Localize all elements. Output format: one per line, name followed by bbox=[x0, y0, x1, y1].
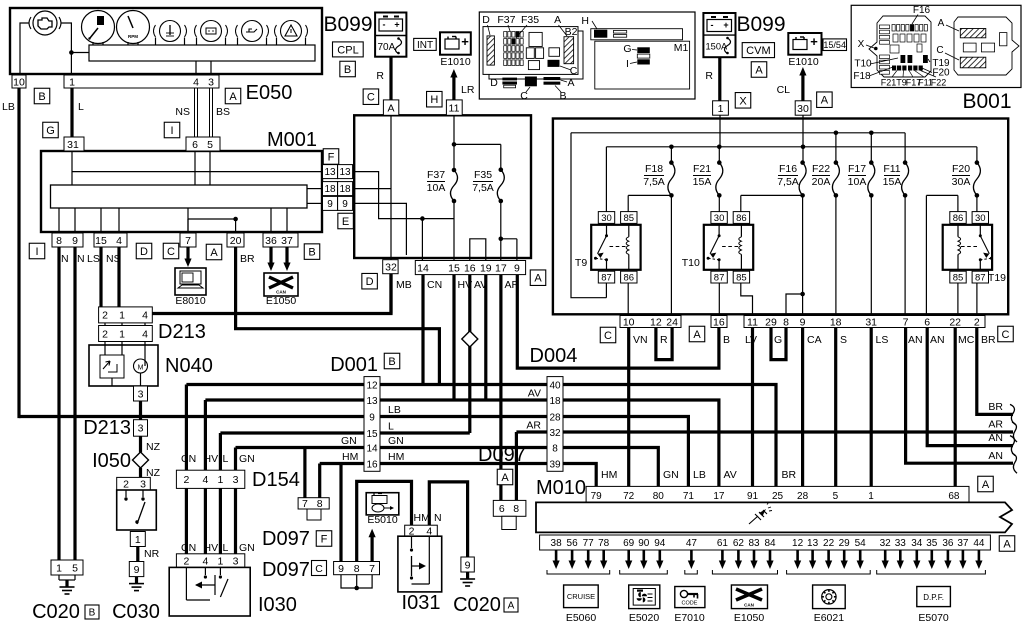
svg-text:85: 85 bbox=[736, 273, 747, 284]
svg-text:M010: M010 bbox=[536, 477, 586, 499]
M001 inner module bbox=[51, 185, 308, 208]
svg-text:10A: 10A bbox=[427, 182, 446, 194]
relay T10 pin85 to pin 11 bbox=[741, 283, 753, 315]
svg-text:BR: BR bbox=[988, 401, 1003, 413]
splice I050 bbox=[133, 452, 149, 468]
svg-text:19: 19 bbox=[480, 262, 492, 274]
svg-text:79: 79 bbox=[591, 491, 603, 502]
svg-text:1: 1 bbox=[56, 562, 62, 574]
svg-text:17: 17 bbox=[713, 491, 725, 502]
svg-text:T10: T10 bbox=[854, 59, 872, 70]
relay T10 bbox=[704, 225, 753, 270]
M001 internal row 13 bbox=[72, 171, 323, 173]
svg-text:AN: AN bbox=[930, 334, 945, 346]
svg-text:B: B bbox=[388, 356, 395, 368]
svg-text:CN: CN bbox=[181, 453, 196, 465]
wire BS double bbox=[209, 88, 211, 137]
ground C020 bbox=[58, 575, 60, 580]
M001 bottom pin 20 bbox=[227, 233, 244, 247]
wire HM branch to D097F pin8 bbox=[318, 464, 321, 498]
fuse box internal feed from pin A to pin 32 bbox=[390, 115, 392, 259]
svg-text:33: 33 bbox=[895, 538, 907, 549]
svg-text:AV: AV bbox=[528, 388, 541, 400]
svg-text:HM: HM bbox=[414, 512, 430, 524]
svg-text:H: H bbox=[430, 94, 438, 106]
svg-text:RPM: RPM bbox=[128, 34, 138, 39]
inset B001 right connector outline bbox=[954, 17, 1019, 75]
engine ECU M010 top pin strip bbox=[586, 486, 969, 502]
fuse F22 20A bbox=[832, 163, 839, 196]
svg-text:L: L bbox=[388, 421, 394, 433]
svg-text:LR: LR bbox=[461, 84, 475, 96]
tachograph E5020 bbox=[629, 585, 660, 609]
svg-text:54: 54 bbox=[855, 538, 867, 549]
heater valve N040 bbox=[89, 345, 158, 386]
svg-text:83: 83 bbox=[748, 538, 760, 549]
svg-text:6: 6 bbox=[192, 139, 198, 151]
connector letter B bbox=[85, 605, 99, 619]
svg-text:D001: D001 bbox=[330, 354, 378, 376]
connector letter A bbox=[206, 244, 222, 260]
connector I031 pins 2 4 bbox=[405, 525, 438, 536]
inset right connector holes bbox=[963, 43, 976, 52]
svg-text:B099: B099 bbox=[736, 13, 785, 36]
svg-text:4: 4 bbox=[116, 235, 122, 247]
wires D154 to I030 bbox=[185, 488, 188, 553]
svg-text:D: D bbox=[366, 276, 374, 288]
svg-text:16: 16 bbox=[464, 262, 476, 274]
E050 bus legs to pins 4 3 bbox=[195, 61, 197, 75]
svg-text:1: 1 bbox=[217, 474, 223, 486]
svg-text:32: 32 bbox=[549, 428, 561, 439]
D097C pins common link bbox=[341, 575, 372, 588]
wire fuse pin16 down with splice bbox=[468, 275, 471, 433]
arrow M001 pin37 to E1050 bbox=[285, 247, 288, 264]
svg-text:7,5A: 7,5A bbox=[777, 176, 799, 188]
wire N I031 pin4 to C020 bbox=[429, 482, 467, 557]
svg-text:A: A bbox=[821, 95, 829, 107]
svg-text:7: 7 bbox=[302, 498, 308, 510]
N040 pins 2 1 4 bbox=[99, 326, 153, 342]
svg-text:CN: CN bbox=[427, 279, 442, 291]
inset right connector A slot hatched bbox=[960, 29, 986, 38]
svg-text:BR: BR bbox=[981, 334, 996, 346]
svg-text:+: + bbox=[394, 20, 399, 30]
connector letter D bbox=[362, 273, 378, 289]
svg-text:10A: 10A bbox=[848, 176, 867, 188]
svg-text:4: 4 bbox=[193, 76, 199, 88]
connector letter C bbox=[998, 326, 1014, 342]
svg-text:31: 31 bbox=[67, 139, 79, 151]
row wire AV D001 pin13 to M010 pin17 bbox=[205, 400, 719, 486]
switch I050 bbox=[117, 490, 157, 530]
svg-text:5: 5 bbox=[833, 491, 839, 502]
svg-text:CODE: CODE bbox=[682, 601, 698, 607]
svg-text:B2: B2 bbox=[565, 26, 578, 38]
svg-text:16: 16 bbox=[713, 316, 725, 328]
svg-text:9: 9 bbox=[465, 559, 471, 571]
svg-text:13: 13 bbox=[339, 167, 351, 178]
svg-text:84: 84 bbox=[764, 538, 776, 549]
svg-text:A: A bbox=[229, 91, 237, 103]
inset relay white blocks bbox=[529, 32, 542, 46]
svg-text:GN: GN bbox=[388, 435, 404, 447]
svg-text:MC: MC bbox=[958, 334, 975, 346]
svg-text:X: X bbox=[739, 95, 747, 107]
svg-text:86: 86 bbox=[624, 273, 635, 284]
wire L E050 pin1 to M001 pin31 bbox=[70, 88, 73, 137]
fuse box internal row9 link bbox=[354, 203, 406, 255]
svg-text:F17: F17 bbox=[848, 163, 866, 175]
function box CPL bbox=[333, 42, 364, 57]
svg-text:18: 18 bbox=[339, 184, 351, 195]
svg-text:34: 34 bbox=[911, 538, 923, 549]
E050 warning triangle gauge bbox=[281, 21, 302, 42]
svg-text:70A: 70A bbox=[378, 42, 396, 53]
svg-text:GN: GN bbox=[239, 453, 255, 465]
svg-text:NR: NR bbox=[144, 548, 160, 560]
fuse F20 to relay T19 pin30 bbox=[976, 195, 978, 211]
M001 internal junction to pin 20 bbox=[233, 217, 238, 222]
svg-text:H: H bbox=[581, 15, 589, 27]
wire B B001 pin16 to fuse box pin 9 bbox=[517, 275, 719, 369]
fuse box internal F37 output bbox=[453, 201, 455, 261]
svg-text:-: - bbox=[711, 20, 714, 30]
connector letter B bbox=[340, 61, 356, 77]
svg-text:30: 30 bbox=[975, 213, 986, 224]
fuse F11 15A bbox=[902, 163, 909, 196]
wire E050 engine icon to bus bbox=[61, 23, 71, 53]
M001 internal row 9 bbox=[307, 202, 323, 204]
ground C020 right bbox=[466, 572, 469, 579]
svg-text:12: 12 bbox=[792, 538, 804, 549]
particulate filter E5070 bbox=[917, 587, 951, 607]
svg-text:I031: I031 bbox=[402, 592, 441, 614]
connector letter C bbox=[363, 89, 379, 105]
svg-text:M001: M001 bbox=[267, 129, 317, 151]
svg-text:9: 9 bbox=[134, 564, 140, 576]
svg-text:CA: CA bbox=[807, 334, 822, 346]
svg-text:N: N bbox=[434, 512, 442, 524]
svg-text:T9: T9 bbox=[575, 257, 587, 269]
row wire HM to M010 pin79 bbox=[320, 464, 597, 487]
fuse box internal row13 link bbox=[354, 172, 422, 219]
svg-text:18: 18 bbox=[324, 184, 336, 195]
M001 bottom pins 15 4 bbox=[94, 233, 127, 247]
connector D213 pins 2 1 4 bbox=[99, 307, 153, 323]
connector D004 bbox=[547, 377, 563, 472]
svg-text:15: 15 bbox=[448, 262, 460, 274]
svg-text:85: 85 bbox=[624, 213, 635, 224]
M001 right pins 18 18 bbox=[323, 182, 338, 196]
B001 pin 30 top bbox=[795, 101, 811, 115]
svg-text:F35: F35 bbox=[521, 14, 539, 26]
svg-text:D097: D097 bbox=[262, 528, 310, 550]
connector letter G bbox=[43, 122, 59, 138]
svg-text:C: C bbox=[520, 90, 528, 102]
svg-text:85: 85 bbox=[953, 273, 964, 284]
inset bottom black block C bbox=[525, 77, 537, 87]
svg-text:HM: HM bbox=[342, 451, 358, 463]
svg-text:R: R bbox=[705, 70, 713, 82]
svg-text:7,5A: 7,5A bbox=[643, 176, 665, 188]
svg-text:B: B bbox=[559, 90, 566, 102]
svg-text:MB: MB bbox=[396, 279, 412, 291]
svg-text:77: 77 bbox=[583, 538, 595, 549]
svg-text:32: 32 bbox=[385, 261, 397, 273]
E050 fuel gauge bbox=[82, 11, 115, 44]
svg-text:G: G bbox=[46, 125, 55, 137]
svg-text:CL: CL bbox=[777, 84, 791, 96]
fuse box (F37 F35) bbox=[354, 115, 531, 258]
svg-text:F16: F16 bbox=[779, 163, 797, 175]
svg-text:9: 9 bbox=[327, 199, 333, 210]
inset hatched connector A B2 bbox=[564, 37, 574, 64]
svg-text:G: G bbox=[623, 43, 631, 55]
svg-text:6: 6 bbox=[499, 503, 505, 515]
battery B099 right with fuse 150A bbox=[703, 13, 735, 57]
svg-text:30: 30 bbox=[797, 103, 809, 115]
feed D154 pin2 riser bbox=[185, 385, 188, 471]
svg-text:A: A bbox=[387, 102, 394, 114]
svg-text:N: N bbox=[77, 253, 85, 265]
wire G loop pins 29 8 bbox=[771, 328, 786, 360]
svg-text:40: 40 bbox=[549, 380, 561, 391]
wire MB D213 pin4 to fuse box pin 32 bbox=[152, 274, 391, 314]
svg-text:D: D bbox=[140, 246, 148, 258]
svg-text:37: 37 bbox=[957, 538, 969, 549]
E050 battery gauge bbox=[201, 21, 222, 42]
connector letter B bbox=[34, 88, 50, 104]
wire AN B001 pin7 to right edge bbox=[906, 328, 1013, 464]
svg-text:+: + bbox=[461, 34, 469, 49]
fuse box pin 11 bbox=[446, 100, 462, 115]
svg-text:7: 7 bbox=[369, 563, 375, 575]
svg-text:78: 78 bbox=[598, 538, 610, 549]
svg-text:4: 4 bbox=[202, 474, 208, 486]
wire LV B001 pin11 to M010 pin91 bbox=[751, 328, 754, 487]
wire CN fuse pin14 down bbox=[421, 275, 424, 385]
svg-text:B: B bbox=[723, 334, 730, 346]
svg-text:68: 68 bbox=[948, 491, 960, 502]
connector letter E bbox=[338, 213, 354, 229]
svg-text:D.P.F.: D.P.F. bbox=[923, 593, 944, 602]
svg-text:1: 1 bbox=[69, 76, 75, 88]
svg-text:HM: HM bbox=[601, 469, 617, 481]
fuse F18 to pin 24 bbox=[670, 195, 672, 315]
row wire LB to M010 pin71 bbox=[19, 417, 688, 487]
svg-text:F: F bbox=[321, 533, 328, 545]
svg-text:C020: C020 bbox=[32, 601, 80, 623]
function box 15/54 bbox=[823, 39, 847, 51]
svg-text:CAN: CAN bbox=[276, 290, 286, 295]
svg-text:AR: AR bbox=[526, 420, 541, 432]
svg-text:62: 62 bbox=[733, 538, 745, 549]
battery B099 with fuse 70A bbox=[375, 13, 406, 57]
svg-text:3: 3 bbox=[233, 474, 239, 486]
svg-text:3: 3 bbox=[140, 478, 146, 490]
svg-text:30: 30 bbox=[601, 213, 612, 224]
C020 right pin 9 bbox=[461, 557, 474, 572]
B001 internal bus lower bbox=[606, 146, 977, 148]
wire NZ splice to switch bbox=[139, 468, 142, 477]
M001 bottom pins 36 37 bbox=[263, 233, 298, 247]
svg-text:I: I bbox=[170, 125, 173, 137]
svg-text:C: C bbox=[570, 65, 578, 77]
svg-text:GN: GN bbox=[239, 542, 255, 554]
svg-text:3: 3 bbox=[138, 423, 144, 435]
svg-text:C: C bbox=[936, 45, 943, 56]
svg-text:E5010: E5010 bbox=[367, 514, 398, 526]
svg-text:A: A bbox=[755, 64, 763, 76]
svg-text:L: L bbox=[223, 542, 229, 554]
E050 pin 10 bbox=[12, 75, 26, 88]
svg-text:31: 31 bbox=[865, 316, 877, 328]
M010 output arrows bbox=[555, 550, 558, 562]
connector D001 bbox=[364, 377, 380, 472]
svg-text:LB: LB bbox=[2, 101, 15, 113]
inset black block C bbox=[548, 60, 560, 67]
svg-text:R: R bbox=[376, 70, 384, 82]
connector letter H bbox=[427, 91, 443, 107]
fuse box internal pin11 feed bbox=[453, 115, 455, 170]
svg-text:4: 4 bbox=[142, 328, 148, 340]
svg-text:F18: F18 bbox=[645, 163, 663, 175]
wire E050 engine icon to pin 10 bbox=[20, 23, 29, 75]
svg-text:3: 3 bbox=[138, 388, 144, 400]
function box INT bbox=[414, 38, 437, 50]
connector I030 pins bbox=[176, 554, 244, 568]
wire fuse pin17 to D097 pin6 bbox=[499, 275, 502, 501]
svg-text:10: 10 bbox=[623, 316, 635, 328]
svg-text:A: A bbox=[210, 247, 218, 259]
splice diamond bbox=[462, 331, 478, 347]
wire HM D097C pin8 to I031 pin2 bbox=[357, 481, 412, 561]
svg-text:E6021: E6021 bbox=[814, 612, 845, 624]
svg-text:1: 1 bbox=[119, 328, 125, 340]
svg-text:15: 15 bbox=[95, 235, 107, 247]
svg-text:4: 4 bbox=[202, 555, 208, 567]
svg-text:+: + bbox=[810, 34, 818, 49]
wire LS B001 pin31 to M010 pin1 bbox=[870, 328, 873, 487]
svg-text:1: 1 bbox=[718, 103, 724, 115]
svg-text:F: F bbox=[328, 151, 335, 163]
svg-text:4: 4 bbox=[142, 310, 148, 322]
fuel pump module E5010 bbox=[366, 493, 399, 515]
svg-text:15: 15 bbox=[366, 429, 378, 440]
svg-text:INT: INT bbox=[417, 40, 433, 51]
svg-text:90: 90 bbox=[638, 538, 650, 549]
svg-text:B: B bbox=[38, 91, 45, 103]
M001 bottom pin 7 bbox=[180, 233, 196, 247]
svg-text:CAN: CAN bbox=[744, 603, 754, 608]
svg-text:I: I bbox=[626, 58, 629, 70]
svg-text:150A: 150A bbox=[706, 42, 729, 52]
svg-text:3: 3 bbox=[233, 555, 239, 567]
svg-text:G: G bbox=[774, 334, 782, 346]
svg-text:9: 9 bbox=[514, 262, 520, 274]
svg-text:2: 2 bbox=[183, 474, 189, 486]
svg-text:-: - bbox=[383, 20, 386, 30]
svg-text:18: 18 bbox=[830, 316, 842, 328]
svg-text:24: 24 bbox=[666, 316, 678, 328]
break symbol BR bbox=[1010, 404, 1015, 424]
svg-text:1: 1 bbox=[135, 534, 141, 546]
svg-text:F37: F37 bbox=[497, 14, 515, 26]
svg-text:C020: C020 bbox=[453, 594, 501, 616]
fuse F20 30A bbox=[973, 163, 980, 196]
svg-text:B099: B099 bbox=[323, 13, 372, 36]
B001 internal feed pin1 bbox=[719, 115, 721, 147]
svg-text:9: 9 bbox=[72, 235, 78, 247]
svg-text:GN: GN bbox=[341, 435, 357, 447]
junction E050 bbox=[69, 50, 74, 55]
fuse F22 to pin 18 bbox=[835, 195, 837, 315]
wire N M001 pin8 to C020 bbox=[57, 247, 60, 560]
fuse F35 7.5A bbox=[497, 170, 504, 201]
svg-text:B: B bbox=[89, 608, 96, 619]
wire N M001 pin9 to C020 bbox=[73, 247, 76, 560]
relay T19 pin85 to pin 22 bbox=[957, 283, 959, 315]
svg-text:1: 1 bbox=[217, 555, 223, 567]
connector letter B bbox=[384, 353, 400, 369]
svg-text:BR: BR bbox=[240, 253, 255, 265]
svg-text:AR: AR bbox=[988, 419, 1003, 431]
connector letter X bbox=[735, 93, 751, 109]
svg-text:20A: 20A bbox=[812, 176, 831, 188]
svg-text:8: 8 bbox=[56, 235, 62, 247]
connector D213 pin 3 bbox=[134, 420, 148, 437]
svg-text:14: 14 bbox=[366, 443, 378, 454]
svg-text:11: 11 bbox=[449, 102, 460, 114]
svg-text:A: A bbox=[554, 14, 561, 26]
svg-text:E8010: E8010 bbox=[175, 295, 206, 307]
connector letter B bbox=[304, 244, 320, 260]
svg-text:D154: D154 bbox=[252, 469, 300, 491]
wire R B099 to fuse box pin A bbox=[389, 57, 392, 100]
svg-text:18: 18 bbox=[549, 396, 561, 407]
wire NS M001 pin4 to D213 pin1 bbox=[117, 247, 120, 307]
svg-text:56: 56 bbox=[567, 538, 579, 549]
function box CVM bbox=[742, 43, 774, 58]
svg-text:F16: F16 bbox=[913, 5, 931, 16]
wire NR to C030 bbox=[136, 547, 139, 562]
inset board first layer bbox=[483, 27, 578, 75]
svg-text:M1: M1 bbox=[674, 42, 689, 54]
wire NZ to splice I050 bbox=[139, 436, 142, 452]
svg-text:9: 9 bbox=[342, 199, 348, 210]
svg-text:7: 7 bbox=[903, 316, 909, 328]
svg-text:LB: LB bbox=[693, 469, 706, 481]
svg-text:F11: F11 bbox=[883, 163, 900, 175]
svg-text:BR: BR bbox=[782, 469, 797, 481]
inset fuse row filled F21 T9 F17 F11 F22 bbox=[897, 66, 901, 71]
relay T19 bbox=[943, 225, 992, 270]
M001 internal row 18 bbox=[307, 188, 323, 190]
svg-text:29: 29 bbox=[839, 538, 851, 549]
svg-text:LS: LS bbox=[87, 253, 100, 265]
connector letter C bbox=[163, 243, 179, 259]
svg-text:38: 38 bbox=[551, 538, 563, 549]
fuse box pin 32 bbox=[383, 260, 398, 274]
clutch switch I030 bbox=[169, 567, 250, 616]
svg-text:D097: D097 bbox=[262, 559, 310, 581]
M001 right pins 13 13 bbox=[323, 165, 338, 179]
row wire BR D001 pin12 to M010 pin25 bbox=[186, 385, 776, 487]
svg-text:+: + bbox=[723, 20, 728, 30]
svg-text:94: 94 bbox=[654, 538, 666, 549]
switch I050 pins 2 3 bbox=[117, 477, 151, 490]
